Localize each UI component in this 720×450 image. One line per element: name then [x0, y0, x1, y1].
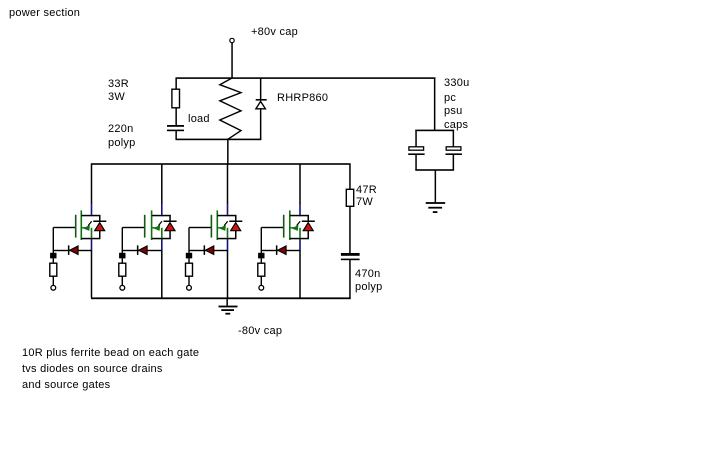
wire drain pin blue [91, 203, 93, 215]
svg-text:+80v cap: +80v cap [251, 26, 298, 38]
mosfet Q3 channel bar [217, 210, 219, 240]
capacitor C-left bottom plate [408, 153, 424, 155]
mosfet cell Q2 [119, 164, 177, 298]
mosfet Q1 drain stub [82, 215, 93, 217]
mosfet Q3 arrow [218, 227, 223, 228]
mosfet Q2 source stub [152, 238, 171, 240]
svg-text:psu: psu [444, 105, 463, 117]
wire drain jog to tvs [228, 215, 237, 217]
wire gate-source diode row [53, 250, 91, 251]
terminal circle [259, 285, 264, 290]
wire source down to bottom bus [91, 250, 93, 298]
wire drop from bus [91, 164, 93, 204]
wire gate-source diode row [122, 250, 162, 251]
wire source down to bottom bus [227, 250, 229, 298]
capacitor C-right top plate [446, 147, 461, 150]
svg-text:power section: power section [9, 7, 80, 19]
wire bottom rail of load box y=139 [176, 139, 262, 141]
capacitor 470n top plate [341, 253, 360, 256]
mosfet Q3 gate wire [189, 227, 211, 228]
tvs diode D2a cathode bar [164, 221, 177, 223]
mosfet Q4 gate bar [283, 215, 285, 238]
wire left branch upper [175, 78, 177, 89]
wire load down to mosfet bus [227, 139, 229, 165]
junction square [258, 253, 264, 259]
mosfet Q2 body line [161, 228, 163, 238]
wire gate down [53, 228, 54, 254]
tvs diode D3a triangle [231, 223, 241, 231]
wire mosfet top bus y=163.5 [91, 163, 351, 165]
mosfet Q4 drain stub [290, 215, 301, 217]
wire psu caps to ground [435, 170, 437, 203]
mosfet Q3 source stub [218, 238, 237, 240]
wire gate-source diode row [261, 250, 300, 251]
wire right rail corner down to psu caps [434, 78, 436, 131]
terminal circle [120, 285, 125, 290]
capacitor C-right bottom plate [446, 153, 462, 155]
junction square [186, 253, 192, 259]
svg-text:RHRP860: RHRP860 [277, 92, 328, 104]
svg-text:3W: 3W [108, 91, 125, 103]
resistor R1 gate [53, 258, 54, 263]
resistor 47R body [346, 189, 353, 206]
resistor R3 gate [188, 258, 189, 263]
node o terminal at +80v input [230, 38, 234, 42]
mosfet cell Q4 [258, 164, 315, 298]
mosfet Q4 arrow [290, 227, 295, 228]
wire top rail y=78 [176, 77, 436, 79]
svg-text:220n: 220n [108, 123, 133, 135]
psu caps left leg lower [415, 154, 417, 170]
psu caps bottom rail [415, 169, 454, 171]
resistor R4 gate [261, 258, 262, 263]
psu caps right leg lower [453, 154, 455, 170]
psu caps right leg upper [453, 130, 455, 147]
wire resistor to terminal [122, 276, 123, 285]
mosfet Q2 gate bar [144, 215, 146, 238]
wire 47R to 470n cap [349, 206, 351, 253]
tvs diode D3a stem [235, 231, 237, 239]
mosfet Q4 channel bar [289, 210, 291, 240]
tvs diode D4a stem [308, 231, 310, 239]
wire +80v node down to top rail [231, 43, 233, 78]
mosfet Q2 gate wire [122, 227, 144, 228]
mosfet Q3 drain stub [218, 215, 229, 217]
wire bus drop to 47R [349, 164, 351, 190]
svg-text:tvs diodes on source drains: tvs diodes on source drains [22, 363, 163, 375]
wire source down to bottom bus [299, 250, 301, 298]
svg-text:-80v cap: -80v cap [238, 325, 282, 337]
svg-text:and source gates: and source gates [22, 379, 111, 391]
resistor 33R body [172, 89, 180, 108]
svg-text:caps: caps [444, 119, 468, 131]
mosfet Q2 drain stub [152, 215, 163, 217]
mosfet cell Q1 [50, 164, 107, 298]
diode RHRP860 upper wire [260, 78, 262, 100]
wire source pin blue [227, 239, 229, 251]
mosfet Q3 gate bar [211, 215, 213, 238]
wire drain pin blue [299, 203, 301, 215]
load resistor zigzag [220, 78, 241, 139]
mosfet Q1 arrow [82, 227, 87, 228]
capacitor C-left top plate [409, 147, 424, 150]
wire drain jog to tvs [300, 215, 309, 217]
diode D4b cathode bar [276, 245, 278, 255]
diode D3b triangle [205, 246, 213, 255]
ground -80v rail [219, 299, 238, 315]
psu caps top rail [415, 130, 454, 132]
tvs diode D1a triangle [95, 223, 105, 231]
wire 470n down to bottom bus [349, 259, 351, 298]
tvs diode D1a stem [99, 231, 101, 239]
diode D2b cathode bar [137, 245, 139, 255]
mosfet Q3 body line [227, 228, 229, 238]
mosfet Q4 gate wire [261, 227, 283, 228]
wire gate down [188, 228, 189, 254]
diode RHRP860 cathode bar [256, 99, 267, 101]
svg-text:pc: pc [444, 92, 456, 104]
wire drain pin blue [227, 203, 229, 215]
wire cap to bottom rail [175, 131, 177, 140]
svg-text:470n: 470n [355, 268, 380, 280]
mosfet Q2 arrow [152, 227, 157, 228]
wire resistor to cap [175, 108, 177, 126]
tvs diode D1a cathode bar [93, 221, 106, 223]
wire gate-source diode row [189, 250, 228, 251]
svg-text:load: load [188, 113, 210, 125]
wire resistor to terminal [188, 276, 189, 285]
diode RHRP860 triangle [256, 101, 266, 108]
mosfet Q2 channel bar [151, 210, 153, 240]
wire gate down [122, 228, 123, 254]
mosfet Q1 gate bar [75, 215, 77, 238]
junction square [119, 253, 125, 259]
mosfet Q1 gate wire [53, 227, 75, 228]
diode D1b triangle [70, 246, 78, 255]
tvs diode D4a cathode bar [302, 221, 315, 223]
mosfet Q1 source stub [82, 238, 101, 240]
capacitor 220n bottom plate [167, 130, 184, 132]
wire drain jog to tvs [92, 215, 101, 217]
svg-text:330u: 330u [444, 77, 469, 89]
diode D4b triangle [278, 246, 286, 255]
wire source down to bottom bus [161, 250, 163, 298]
svg-text:33R: 33R [108, 78, 129, 90]
wire bottom bus y=298 [91, 297, 351, 299]
mosfet Q1 body line [91, 228, 93, 238]
svg-text:polyp: polyp [355, 281, 383, 293]
wire source pin blue [91, 239, 93, 251]
diode D3b cathode bar [204, 245, 206, 255]
wire resistor to terminal [53, 276, 54, 285]
tvs diode D2a stem [169, 231, 171, 239]
resistor R2 gate [122, 258, 123, 263]
tvs diode D4a triangle [303, 223, 313, 231]
junction square [50, 253, 56, 259]
mosfet Q4 body line [299, 228, 301, 238]
capacitor 220n top plate [167, 125, 184, 127]
wire drain pin blue [161, 203, 163, 215]
terminal circle [51, 285, 56, 290]
tvs diode D2a triangle [165, 223, 175, 231]
mosfet Q4 source stub [290, 238, 309, 240]
tvs diode D3a cathode bar [229, 221, 242, 223]
diode D1b cathode bar [68, 245, 70, 255]
wire source pin blue [161, 239, 163, 251]
capacitor 470n bottom plate [341, 259, 360, 261]
wire gate down [261, 228, 262, 254]
svg-text:7W: 7W [356, 196, 373, 208]
mosfet cell Q3 [186, 164, 243, 298]
svg-text:polyp: polyp [108, 137, 136, 149]
wire drop from bus [161, 164, 163, 204]
ground psu caps [426, 202, 446, 213]
diode D2b triangle [139, 246, 147, 255]
wire drop from bus [299, 164, 301, 204]
svg-text:10R plus ferrite bead on each: 10R plus ferrite bead on each gate [22, 347, 199, 359]
wire source pin blue [299, 239, 301, 251]
wire drain jog to tvs [162, 215, 171, 217]
psu caps left leg upper [415, 130, 417, 147]
terminal circle [187, 285, 192, 290]
wire drop from bus [227, 164, 229, 204]
diode RHRP860 lower wire [260, 109, 262, 140]
svg-text:47R: 47R [356, 184, 377, 196]
wire resistor to terminal [261, 276, 262, 285]
mosfet Q1 channel bar [81, 210, 83, 240]
